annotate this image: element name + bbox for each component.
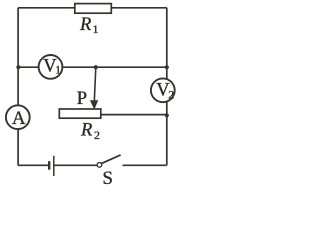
wire: left vertical from ammeter down to bottom corner xyxy=(17,130,19,166)
voltmeter V1 xyxy=(39,55,63,79)
wire: bottom from left corner to battery xyxy=(18,164,48,166)
node: junction dot middle wire / wiper branch xyxy=(94,65,98,69)
switch S: lever xyxy=(102,155,121,164)
svg-text:2: 2 xyxy=(94,128,100,142)
node: junction dot R2 wire / right wire xyxy=(165,113,169,117)
resistor R1 xyxy=(75,4,112,14)
wire: middle horizontal from left wire to V1 xyxy=(18,66,40,68)
node: junction dot middle wire / right wire xyxy=(165,65,169,69)
svg-text:A: A xyxy=(12,108,26,129)
rheostat R2 xyxy=(59,109,101,118)
svg-text:S: S xyxy=(102,168,113,188)
battery (cell): long thin positive plate xyxy=(53,156,55,176)
switch S: pivot circle xyxy=(97,163,102,168)
svg-text:1: 1 xyxy=(55,63,61,77)
svg-text:2: 2 xyxy=(168,88,174,102)
wire: from R2 right terminal to right wire xyxy=(101,114,167,116)
ammeter A xyxy=(6,105,30,129)
svg-text:P: P xyxy=(77,89,87,109)
wire: left vertical from top corner down to ammeter xyxy=(17,8,19,105)
node: junction dot left wire / V1 branch xyxy=(16,65,20,69)
svg-text:R: R xyxy=(79,15,91,35)
voltmeter V2 xyxy=(151,78,175,102)
wire: top-left horizontal segment to R1 xyxy=(18,7,76,9)
wire: bottom from switch to right corner xyxy=(123,164,167,166)
wire: bottom from battery to switch xyxy=(55,164,97,166)
wire: right vertical full height (passes behind V2) xyxy=(166,8,168,166)
wire: top-right horizontal segment from R1 to right corner xyxy=(111,7,167,9)
svg-text:R: R xyxy=(80,121,92,141)
wiper arrow P (stem) xyxy=(94,67,96,101)
battery (cell): short thick negative plate xyxy=(48,161,50,170)
wire: middle horizontal from V1 to right wire xyxy=(62,66,167,68)
svg-text:1: 1 xyxy=(93,22,99,36)
wiper arrow P (head) xyxy=(91,101,98,109)
